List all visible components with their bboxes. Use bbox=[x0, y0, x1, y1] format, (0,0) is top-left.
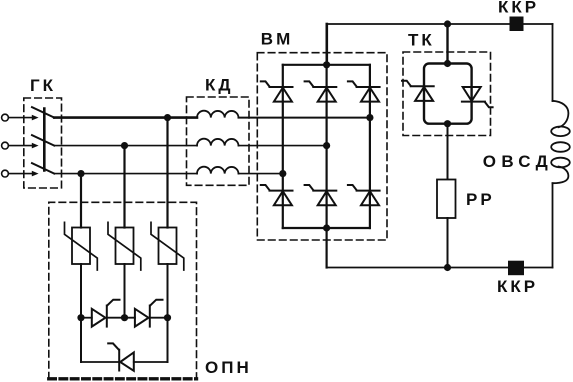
svg-text:ГК: ГК bbox=[30, 76, 56, 95]
svg-text:ВМ: ВМ bbox=[261, 30, 293, 49]
svg-text:РР: РР bbox=[466, 190, 495, 209]
svg-text:ККР: ККР bbox=[497, 277, 538, 296]
svg-text:ОПН: ОПН bbox=[205, 358, 252, 377]
svg-text:ОВСД: ОВСД bbox=[483, 152, 553, 171]
svg-text:КД: КД bbox=[205, 76, 234, 95]
svg-text:ККР: ККР bbox=[498, 0, 539, 17]
svg-text:ТК: ТК bbox=[408, 31, 435, 50]
